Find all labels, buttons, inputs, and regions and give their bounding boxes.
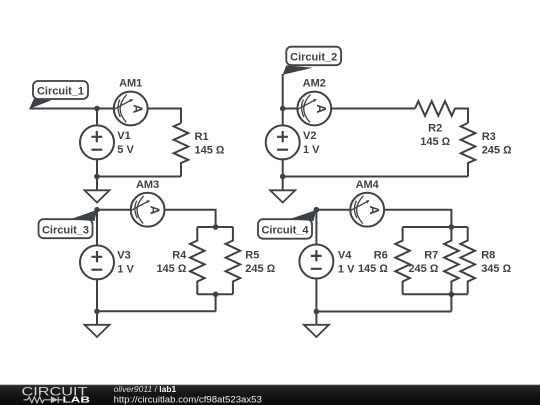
svg-text:LAB: LAB bbox=[63, 395, 91, 405]
svg-text:R3: R3 bbox=[482, 131, 496, 143]
svg-text:R8: R8 bbox=[481, 250, 495, 262]
svg-text:Circuit_1: Circuit_1 bbox=[37, 85, 84, 97]
svg-text:R2: R2 bbox=[428, 123, 442, 135]
svg-text:V1: V1 bbox=[117, 130, 130, 142]
svg-text:Circuit_3: Circuit_3 bbox=[42, 224, 89, 236]
svg-text:145 Ω: 145 Ω bbox=[195, 145, 225, 157]
svg-text:AM2: AM2 bbox=[303, 78, 326, 90]
svg-text:145 Ω: 145 Ω bbox=[420, 136, 450, 148]
svg-text:AM3: AM3 bbox=[136, 179, 159, 191]
svg-text:345 Ω: 345 Ω bbox=[481, 263, 511, 275]
svg-text:1 V: 1 V bbox=[303, 144, 320, 156]
svg-text:http://circuitlab.com/cf98at52: http://circuitlab.com/cf98at523ax53 bbox=[114, 394, 262, 405]
svg-text:Circuit_2: Circuit_2 bbox=[290, 52, 337, 64]
svg-text:5 V: 5 V bbox=[117, 144, 134, 156]
svg-text:R5: R5 bbox=[245, 250, 259, 262]
svg-text:245 Ω: 245 Ω bbox=[245, 263, 275, 275]
svg-text:V4: V4 bbox=[338, 250, 352, 262]
svg-text:R4: R4 bbox=[172, 250, 187, 262]
svg-text:1 V: 1 V bbox=[338, 264, 355, 276]
svg-text:R7: R7 bbox=[424, 250, 438, 262]
svg-text:AM1: AM1 bbox=[119, 78, 142, 90]
svg-text:1 V: 1 V bbox=[117, 264, 134, 276]
svg-text:V3: V3 bbox=[117, 250, 130, 262]
svg-text:145 Ω: 145 Ω bbox=[156, 263, 186, 275]
svg-text:V2: V2 bbox=[303, 130, 316, 142]
svg-text:AM4: AM4 bbox=[356, 179, 380, 191]
svg-text:245 Ω: 245 Ω bbox=[482, 145, 512, 157]
svg-text:oliver9011 / lab1: oliver9011 / lab1 bbox=[114, 384, 177, 394]
svg-text:R6: R6 bbox=[374, 250, 388, 262]
svg-text:245 Ω: 245 Ω bbox=[408, 263, 438, 275]
svg-text:Circuit_4: Circuit_4 bbox=[261, 224, 309, 236]
svg-text:R1: R1 bbox=[195, 131, 209, 143]
svg-text:145 Ω: 145 Ω bbox=[358, 263, 388, 275]
